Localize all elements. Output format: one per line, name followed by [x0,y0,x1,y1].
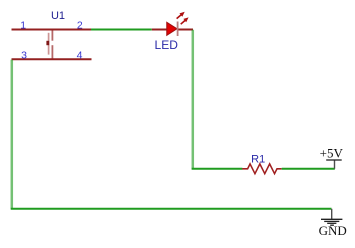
resistor R1 [242,164,282,174]
svg-text:2: 2 [77,20,83,32]
wire from pin 3 down left side [11,60,14,209]
svg-text:3: 3 [21,49,27,61]
wire along bottom to ground [11,208,332,210]
wire from LED cathode down [192,30,195,169]
svg-text:4: 4 [77,49,83,61]
wire from resistor to +5V [282,168,335,170]
LED [152,12,193,36]
svg-text:+5V: +5V [320,145,344,160]
wire from LED column to resistor [192,168,243,170]
svg-text:1: 1 [20,20,26,32]
svg-text:LED: LED [155,38,179,52]
power flag +5V [320,145,344,168]
svg-text:R1: R1 [251,153,265,165]
svg-text:GND: GND [319,223,347,238]
tactile switch U1 [12,30,92,60]
svg-text:U1: U1 [51,10,65,22]
wire from pin 2 to LED anode [91,29,152,31]
ground flag GND [319,209,347,238]
